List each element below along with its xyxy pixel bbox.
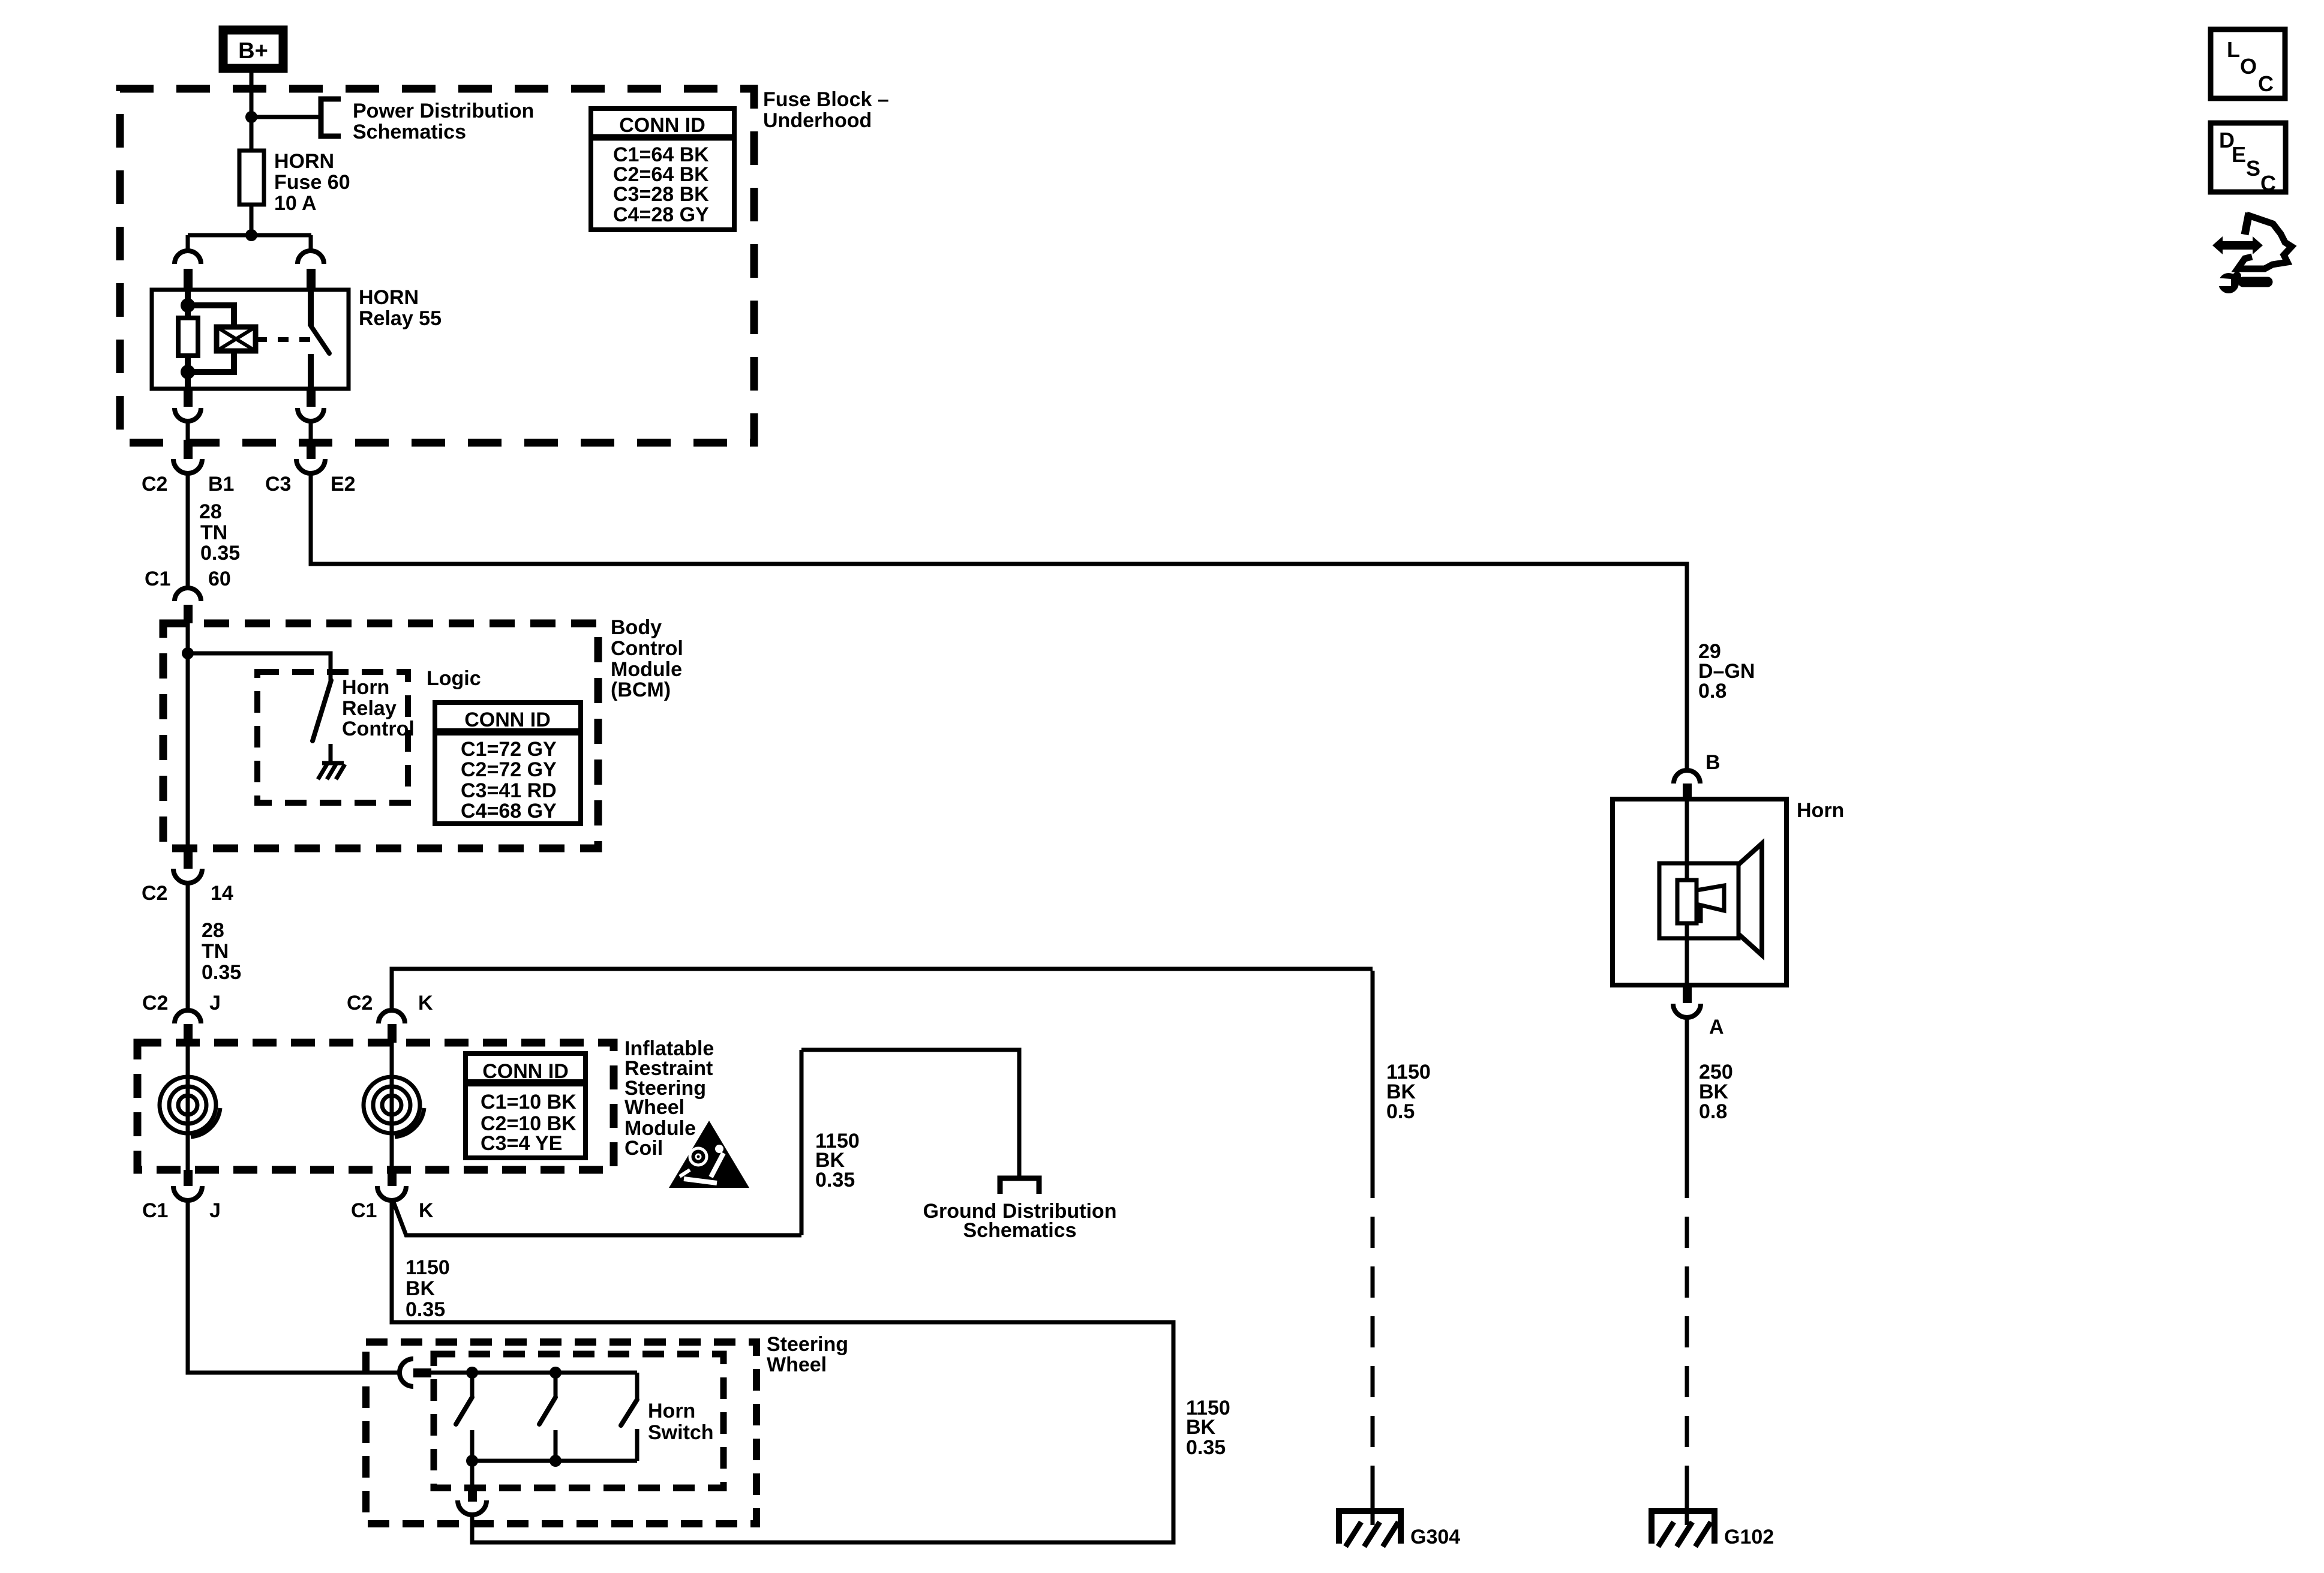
svg-text:Schematics: Schematics [353,121,466,143]
svg-text:1150: 1150 [406,1256,450,1279]
svg-text:28: 28 [202,919,224,942]
svg-text:L: L [2227,37,2240,62]
svg-text:0.5: 0.5 [1386,1100,1415,1123]
svg-text:A: A [1709,1016,1724,1038]
svg-text:Control: Control [611,637,683,660]
svg-text:Control: Control [342,718,415,740]
svg-text:G102: G102 [1724,1526,1774,1548]
svg-text:C4=28 GY: C4=28 GY [613,203,709,226]
svg-text:Horn: Horn [648,1400,695,1422]
svg-text:Body: Body [611,616,662,639]
svg-text:BK: BK [406,1277,436,1300]
svg-text:HORN: HORN [274,150,334,173]
svg-text:Wheel: Wheel [624,1096,684,1119]
svg-text:60: 60 [208,568,231,590]
svg-text:C3=4 YE: C3=4 YE [481,1132,562,1155]
svg-text:C: C [2260,171,2276,196]
svg-text:Schematics: Schematics [963,1219,1077,1242]
svg-text:0.35: 0.35 [202,961,241,984]
svg-text:0.8: 0.8 [1698,680,1727,703]
svg-text:C2: C2 [142,473,167,496]
svg-text:E: E [2232,142,2246,167]
svg-text:HORN: HORN [359,286,419,309]
svg-text:Logic: Logic [427,667,481,690]
svg-text:Wheel: Wheel [767,1353,827,1376]
svg-text:0.35: 0.35 [815,1169,855,1191]
svg-text:C2: C2 [142,882,167,905]
svg-text:Power Distribution: Power Distribution [353,100,534,122]
svg-text:C3: C3 [265,473,291,496]
svg-text:C2: C2 [142,992,168,1014]
svg-text:J: J [209,1199,221,1222]
svg-text:B: B [1706,751,1721,774]
svg-text:S: S [2246,156,2260,181]
svg-text:B1: B1 [208,473,234,496]
svg-text:C1: C1 [142,1199,168,1222]
svg-text:J: J [209,992,221,1014]
svg-text:TN: TN [202,940,229,963]
svg-text:C: C [2258,71,2274,96]
svg-text:TN: TN [200,521,227,544]
svg-text:14: 14 [211,882,233,905]
svg-text:Fuse Block –: Fuse Block – [763,88,889,111]
svg-text:28: 28 [199,500,222,523]
svg-text:Coil: Coil [624,1137,663,1160]
svg-text:0.35: 0.35 [200,542,240,565]
svg-text:Steering: Steering [767,1333,848,1356]
svg-text:C2=72 GY: C2=72 GY [461,758,557,781]
svg-text:Fuse 60: Fuse 60 [274,171,350,194]
svg-text:C3=41 RD: C3=41 RD [461,779,557,802]
svg-text:BK: BK [1186,1416,1216,1439]
svg-text:G304: G304 [1410,1526,1460,1548]
svg-text:K: K [418,992,433,1014]
svg-text:Horn: Horn [1797,799,1844,822]
svg-text:K: K [419,1199,434,1222]
svg-text:Relay 55: Relay 55 [359,307,442,330]
svg-text:10 A: 10 A [274,192,317,215]
svg-text:C1=72 GY: C1=72 GY [461,738,557,761]
svg-text:Underhood: Underhood [763,109,872,132]
svg-text:0.35: 0.35 [1186,1436,1226,1459]
svg-text:Relay: Relay [342,697,397,720]
svg-text:CONN ID: CONN ID [482,1060,569,1083]
svg-text:O: O [2240,54,2257,79]
svg-text:B+: B+ [238,38,268,64]
svg-text:0.35: 0.35 [406,1298,445,1321]
svg-text:C1: C1 [351,1199,377,1222]
svg-text:Horn: Horn [342,676,389,699]
svg-text:C2: C2 [347,992,373,1014]
svg-text:C1: C1 [145,568,170,590]
svg-text:CONN ID: CONN ID [464,709,551,731]
svg-text:C3=28 BK: C3=28 BK [613,183,709,206]
svg-text:E2: E2 [331,473,356,496]
svg-text:Module: Module [611,658,682,681]
svg-text:Switch: Switch [648,1421,714,1444]
svg-text:0.8: 0.8 [1699,1100,1727,1123]
svg-text:CONN ID: CONN ID [619,114,705,137]
svg-text:C1=10 BK: C1=10 BK [481,1091,577,1113]
svg-text:C4=68 GY: C4=68 GY [461,800,557,822]
svg-text:(BCM): (BCM) [611,679,671,701]
